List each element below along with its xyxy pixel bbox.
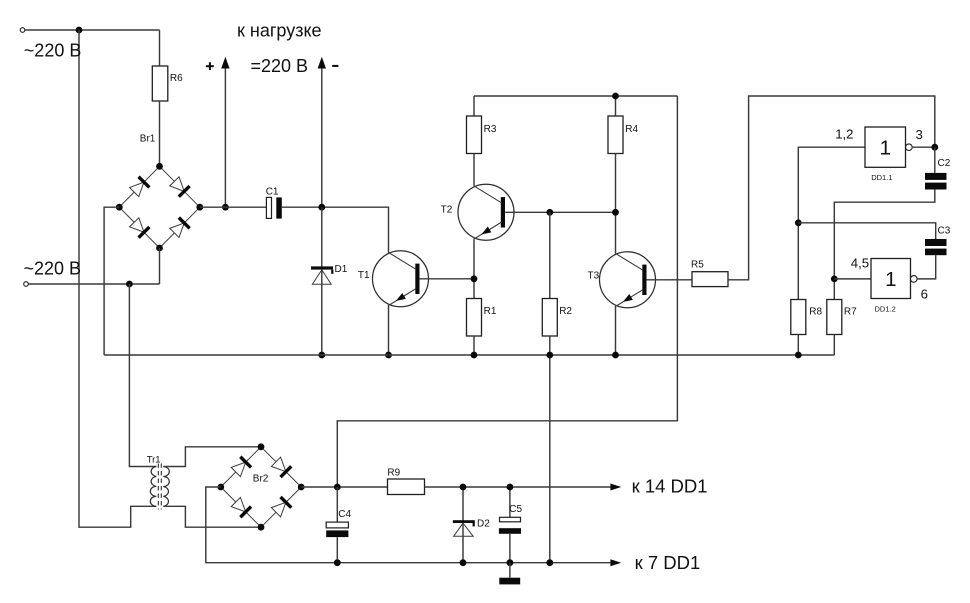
wire: Br2 left node to ground rail (к 7 DD1) (206, 487, 611, 563)
transistor T1 base bar (415, 264, 419, 294)
svg-text:R7: R7 (844, 307, 857, 318)
wire: R5 to DD1.1 output node (728, 96, 935, 280)
zener diode D2 (453, 520, 475, 523)
svg-text:R2: R2 (559, 306, 572, 317)
AC input terminal 1 (20, 28, 25, 33)
junction at (474,278.8) (471, 275, 478, 282)
diode Br1d (bottom-right edge) (170, 223, 184, 238)
AC input terminal 2 (24, 282, 29, 287)
wire: riser to Br1 bottom node (159, 248, 161, 284)
svg-text:C3: C3 (938, 226, 951, 237)
svg-text:1: 1 (885, 268, 896, 291)
svg-text:D2: D2 (477, 519, 490, 530)
wire: top rail into R6 (159, 30, 161, 66)
wire: T3 base to R5 (646, 279, 692, 281)
resistor R4 (608, 116, 623, 154)
wire: R3 top to supply rail (473, 96, 475, 116)
node Br2 right (298, 484, 305, 491)
diode Br1a (left-top edge) (130, 182, 144, 197)
wire: C4 bottom lead (336, 537, 338, 563)
capacitor C2 (925, 173, 947, 180)
junction at (549.8,562.7) (546, 559, 553, 566)
svg-text:DD1.2: DD1.2 (875, 305, 896, 314)
svg-text:R6: R6 (170, 73, 183, 84)
wire: main minus bus (104, 354, 834, 356)
wire: node to C2 (934, 147, 936, 173)
junction at (388.5,355.0) (385, 352, 392, 359)
diode Br2b (top-right edge) (271, 457, 286, 472)
resistor R9 (388, 479, 425, 495)
resistor R3 (467, 116, 482, 154)
junction at (615.5,212.3) (612, 209, 619, 216)
wire: DD1.2 output to C3 bottom (917, 255, 936, 279)
zener diode D1 (311, 266, 333, 269)
diode Br2a (left-top edge) (231, 462, 246, 477)
wire: C5 bottom lead (509, 534, 511, 563)
svg-text:1,2: 1,2 (835, 127, 853, 142)
wire: R6 to Br1 top node (159, 101, 161, 166)
transistor T2 collector stroke (474, 186, 502, 203)
wire: Tr1 secondary bottom lead to Br2 (163, 506, 261, 527)
wire: DD1.1 input net (798, 147, 865, 299)
capacitor C4 (326, 522, 348, 528)
node Br2 left (217, 484, 224, 491)
transistor T1 emitter stroke (389, 289, 416, 305)
transistor T3 base bar (642, 265, 646, 295)
junction at (337.3,562.7) (334, 559, 341, 566)
svg-text:R8: R8 (809, 307, 822, 318)
transformer Tr1 core (157, 464, 159, 510)
wire: T3 emitter to bus (615, 306, 617, 355)
arrowhead plus output (221, 57, 229, 69)
node Br1 top (156, 163, 163, 170)
transistor T2 emitter arrow (481, 227, 491, 235)
junction at (798.3,355.0) (795, 352, 802, 359)
junction at (337.3,487) (334, 484, 341, 491)
wire: T2 base to R4 column (505, 211, 615, 213)
label - (minus sign) (332, 65, 338, 67)
wire: terminal1 to R6 column (25, 29, 160, 31)
capacitor C1 (266, 197, 271, 218)
diode Br1b (top-right edge) (170, 177, 184, 192)
junction at (549.8,212.3) (546, 209, 553, 216)
junction at (79,30) (76, 27, 83, 34)
svg-text:C4: C4 (338, 509, 351, 520)
wire: Br1 left node to minus bus (104, 207, 119, 355)
resistor R7 (827, 300, 842, 335)
transistor T2 emitter stroke (475, 222, 502, 238)
junction at (549.8,355.0) (546, 352, 553, 359)
wire: R7 to bus end (833, 335, 835, 356)
transistor T2 circle (458, 184, 514, 240)
transistor T2 base bar (501, 197, 505, 227)
junction at (615.5,96) (612, 93, 619, 100)
wire: R3 to T2 collector (473, 154, 475, 186)
junction at (463,562.7) (460, 559, 467, 566)
transistor T1 collector stroke (388, 252, 416, 269)
transistor T1 circle (373, 251, 429, 307)
transformer Tr1 secondary winding (163, 467, 169, 507)
wire: Br2 right node to R9 (301, 486, 387, 488)
capacitor C3 (925, 239, 947, 246)
transformer Tr1 primary winding (150, 467, 156, 507)
svg-text:=220 В: =220 В (251, 56, 309, 76)
transistor T3 circle (600, 252, 656, 308)
svg-text:C2: C2 (938, 158, 951, 169)
wire: C1 to T1 collector (282, 207, 389, 252)
junction at (834.3,278.9) (831, 276, 838, 283)
arrowhead minus output (318, 57, 326, 69)
wire: top supply rail (474, 95, 677, 97)
junction at (321.8,355.0) (318, 352, 325, 359)
wire: D2 branch (462, 487, 464, 563)
resistor R2 (542, 299, 557, 337)
wire: x=129 drop to transformer primary (129, 284, 156, 467)
wire: R1 to bus (473, 336, 475, 355)
gate DD1.1 inverter bubble (906, 144, 913, 151)
junction at (615.5,355.0) (612, 352, 619, 359)
svg-text:R1: R1 (484, 306, 497, 317)
svg-text:R3: R3 (484, 124, 497, 135)
svg-text:Br1: Br1 (140, 133, 156, 144)
wire: minus output arrow stem (321, 68, 323, 208)
wire: terminal2 to Br1 bottom (28, 283, 159, 285)
svg-text:C1: C1 (266, 187, 279, 198)
resistor R1 (467, 299, 482, 337)
svg-text:T2: T2 (441, 205, 453, 216)
resistor R5 (692, 272, 728, 287)
transistor T3 emitter arrow (623, 294, 633, 302)
svg-text:к 7 DD1: к 7 DD1 (635, 552, 701, 573)
wire: R8 to bus (797, 335, 799, 356)
arrowhead к 14 DD1 (610, 484, 621, 491)
wire: Tr1 secondary top lead to Br2 (163, 447, 261, 467)
diode Br2c (left-bottom edge) (231, 497, 246, 512)
Br2 edge wires (221, 447, 261, 487)
node Br1 left (116, 204, 123, 211)
wire: R8 node to C3 top (798, 223, 935, 239)
svg-text:R9: R9 (387, 468, 400, 479)
svg-text:R4: R4 (625, 124, 638, 135)
wire: D1 branch vertical (321, 207, 323, 355)
diode Br1c (left-bottom edge) (130, 218, 144, 233)
wire: DD1.1 output (912, 146, 935, 148)
node Br2 top (258, 443, 265, 450)
label + (plus sign) (206, 65, 214, 67)
svg-text:DD1.1: DD1.1 (871, 173, 892, 182)
wire: C5 top lead (509, 487, 511, 517)
wire: R4 top riser (615, 96, 617, 116)
svg-text:R5: R5 (691, 260, 704, 271)
wire: phase drop x=79 down to transformer (79, 30, 156, 527)
junction at (509.9,562.7) (507, 559, 514, 566)
svg-text:T3: T3 (588, 271, 600, 282)
gate DD1.2 box (871, 259, 911, 299)
junction at (463,487) (460, 484, 467, 491)
wire: T1 emitter to bus (388, 305, 390, 355)
transistor T3 emitter stroke (616, 290, 643, 306)
Br1 edge wires (119, 166, 159, 207)
resistor R8 (791, 300, 806, 335)
wire: R4 to T3 collector (615, 154, 617, 254)
wire: plus output arrow stem (224, 68, 226, 208)
wire: supply rail drop to DD1 power (337, 96, 677, 487)
junction at (934.8,147.2) (931, 144, 938, 151)
junction at (509.9,487) (507, 484, 514, 491)
node Br1 bottom (156, 245, 163, 252)
wire: Br1 right node to C1 (200, 206, 267, 208)
arrowhead к 7 DD1 (610, 559, 621, 566)
junction at (321.8,207.2) (318, 204, 325, 211)
svg-text:3: 3 (916, 127, 923, 142)
transistor T1 emitter arrow (396, 293, 406, 301)
svg-text:4,5: 4,5 (851, 255, 869, 270)
wire: R2 bottom long drop to IC ground (549, 336, 551, 563)
svg-text:Br2: Br2 (253, 474, 269, 485)
gate DD1.1 box (865, 127, 906, 167)
svg-text:к нагрузке: к нагрузке (237, 21, 322, 41)
junction at (225.4,207.2) (222, 204, 229, 211)
svg-text:1: 1 (880, 136, 891, 159)
wire: DD1.2 input (834, 278, 871, 280)
svg-text:~220 В: ~220 В (24, 41, 82, 61)
svg-text:6: 6 (921, 287, 928, 302)
node Br1 right (196, 204, 203, 211)
junction at (474,355.0) (471, 352, 478, 359)
resistor R6 (152, 66, 168, 101)
svg-text:~220 В: ~220 В (24, 258, 82, 278)
transistor T3 collector stroke (615, 253, 643, 270)
diode Br2d (bottom-right edge) (271, 502, 286, 517)
wire: C2 bottom to R7 node (834, 190, 935, 300)
wire: T2 emitter riser (473, 238, 475, 298)
wire: R9 to supply arrow (к 14 DD1) (425, 486, 611, 488)
wire: C4 top lead (336, 487, 338, 522)
capacitor C5 (500, 517, 521, 522)
wire: R2 top riser (549, 212, 551, 298)
svg-text:T1: T1 (358, 270, 370, 281)
svg-text:к 14 DD1: к 14 DD1 (632, 475, 708, 496)
wire: T1 base to T2 emitter node (419, 278, 474, 280)
junction at (798.3,222.8) (795, 219, 802, 226)
junction at (129.4,284) (126, 281, 133, 288)
wire: ground stub (509, 563, 511, 578)
gate DD1.2 inverter bubble (911, 276, 918, 283)
ground bar (499, 578, 520, 585)
svg-text:D1: D1 (335, 264, 348, 275)
node Br2 bottom (258, 524, 265, 531)
svg-text:C5: C5 (509, 504, 522, 515)
